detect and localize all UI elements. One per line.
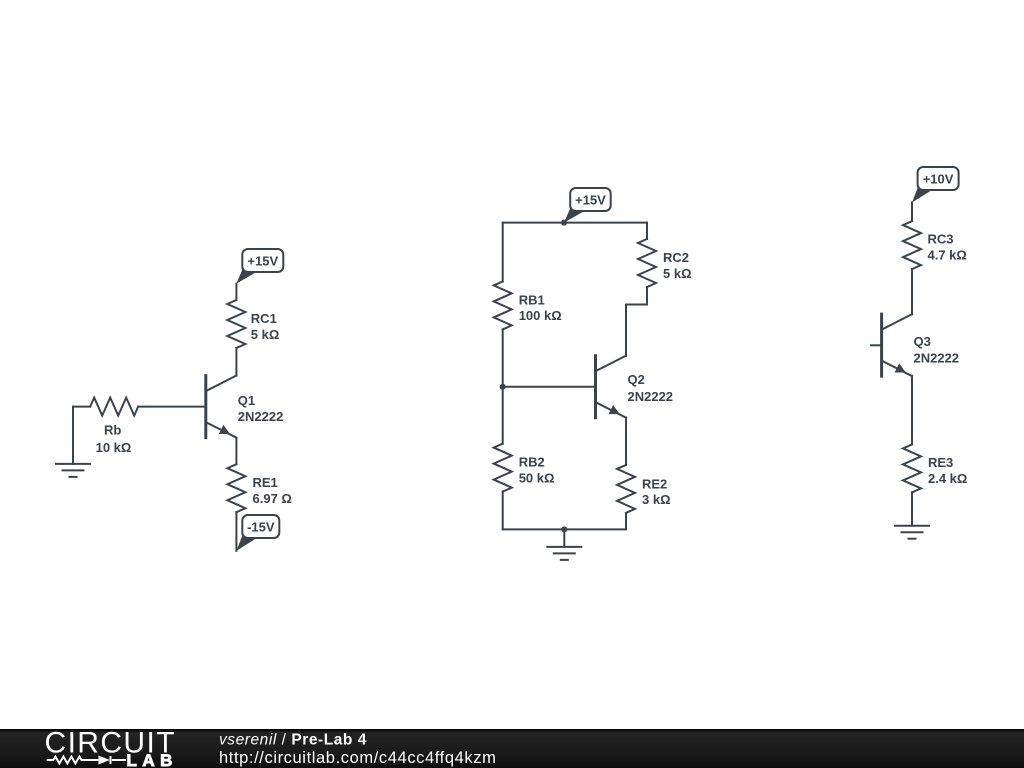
svg-text:LAB: LAB [127, 751, 178, 768]
svg-text:+15V: +15V [575, 193, 606, 208]
svg-text:2.4 kΩ: 2.4 kΩ [928, 471, 967, 486]
svg-text:Q2: Q2 [628, 372, 645, 387]
svg-text:4.7 kΩ: 4.7 kΩ [928, 247, 967, 262]
svg-text:Rb: Rb [104, 423, 121, 438]
svg-text:+15V: +15V [247, 254, 278, 269]
svg-text:100 kΩ: 100 kΩ [519, 308, 562, 323]
svg-text:http://circuitlab.com/c44cc4ff: http://circuitlab.com/c44cc4ffq4kzm [219, 749, 496, 767]
svg-text:RE1: RE1 [253, 475, 278, 490]
svg-text:RE3: RE3 [928, 455, 953, 470]
svg-text:RC3: RC3 [928, 232, 954, 247]
svg-text:2N2222: 2N2222 [628, 389, 674, 404]
svg-text:RB2: RB2 [519, 455, 545, 470]
svg-text:+10V: +10V [923, 172, 954, 187]
svg-text:Q3: Q3 [914, 334, 931, 349]
svg-text:RE2: RE2 [642, 476, 667, 491]
svg-text:5 kΩ: 5 kΩ [251, 327, 279, 342]
svg-text:5 kΩ: 5 kΩ [663, 266, 692, 281]
svg-text:Q1: Q1 [238, 393, 255, 408]
svg-text:RC1: RC1 [251, 311, 277, 326]
svg-text:50 kΩ: 50 kΩ [519, 470, 555, 485]
svg-text:3 kΩ: 3 kΩ [642, 492, 671, 507]
svg-text:RB1: RB1 [519, 292, 545, 307]
svg-text:RC2: RC2 [663, 250, 689, 265]
svg-text:vserenil / Pre-Lab 4: vserenil / Pre-Lab 4 [219, 732, 367, 749]
svg-text:2N2222: 2N2222 [914, 351, 960, 366]
svg-text:-15V: -15V [247, 520, 275, 535]
svg-text:2N2222: 2N2222 [238, 409, 284, 424]
svg-text:6.97 Ω: 6.97 Ω [253, 491, 292, 506]
svg-text:10 kΩ: 10 kΩ [96, 440, 132, 455]
